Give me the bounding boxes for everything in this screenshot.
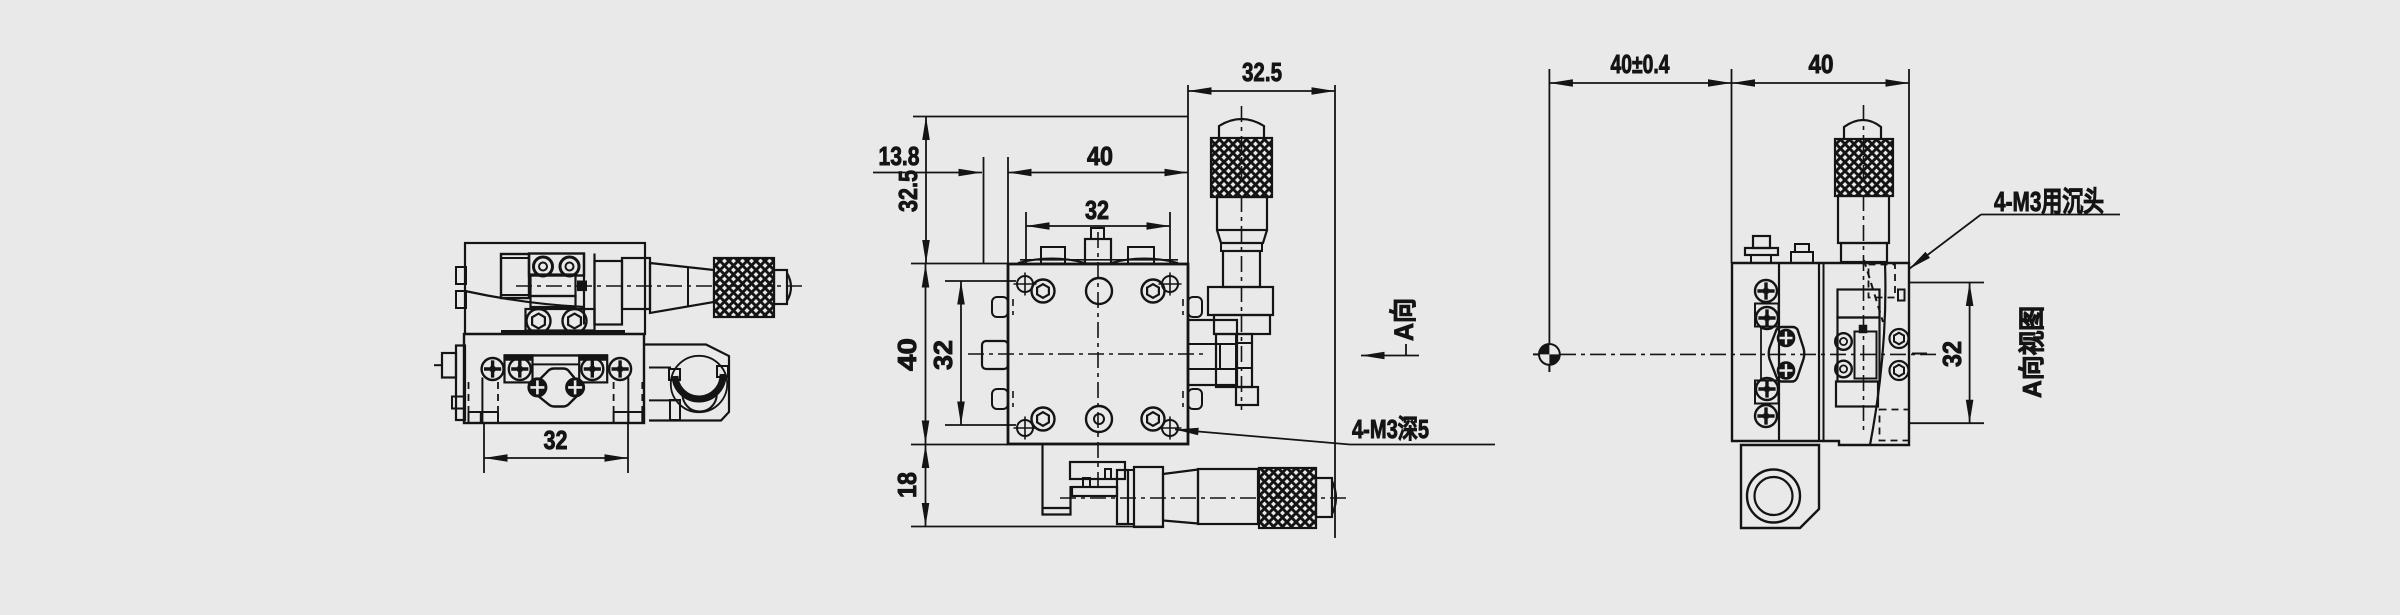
right view: clamp hex screws [1890, 329, 1909, 348]
middle view: top micrometer centerline [1241, 106, 1243, 410]
left view: C-clamp end squares [669, 369, 680, 380]
middle view: dim 13.8 line with arrow [873, 172, 982, 174]
left view: lozenge screw left (dark) [528, 378, 546, 396]
middle view: top micrometer cap [1219, 119, 1264, 138]
left view: center line [516, 285, 806, 287]
middle view: dim 32 horizontal line [1026, 225, 1170, 227]
right view: top bolt small [1795, 244, 1809, 252]
middle view: socket screw top-right [1142, 280, 1165, 303]
left view: base phillips screw 1 [482, 358, 504, 380]
right view: horizontal centerline [1560, 353, 1940, 355]
middle view: leader 4-M3 deep 5 [1175, 430, 1350, 445]
middle view: right micrometer bracket [1188, 320, 1237, 385]
middle view: top wave spring arcs [1018, 259, 1085, 264]
middle view: dim 18 bottom extension line [911, 526, 1162, 528]
left view: center lozenge plate [531, 369, 583, 407]
right view: dim 40±0.4 line [1549, 82, 1731, 84]
middle view: left edge tab lower [992, 389, 1008, 409]
svg-text:4-M3用沉头: 4-M3用沉头 [1994, 186, 2104, 217]
svg-text:18: 18 [892, 472, 922, 498]
right view: top bolt large [1753, 236, 1770, 248]
right view: dim 32 line [1969, 283, 1971, 424]
right view: datum target symbol [1539, 344, 1560, 365]
right view: lozenge screws (dark) [1778, 330, 1795, 347]
right view: lozenge plate [1769, 327, 1805, 382]
left view: mid rect [531, 275, 576, 297]
middle view: main square body [1008, 264, 1188, 444]
middle view: bottom anvil blocks [1117, 470, 1128, 524]
right view: main body outline [1732, 263, 1909, 445]
left view: right bracket outline [644, 345, 729, 421]
middle view: platform top tabs [1041, 247, 1065, 264]
right view: top micrometer cap [1844, 120, 1881, 139]
svg-text:32.5: 32.5 [1242, 57, 1282, 87]
left view: upper block (stage body, side) [465, 243, 645, 334]
middle view: vertical centerline [1097, 232, 1099, 492]
left view: base phillips screw 4 [609, 358, 631, 380]
middle view: M3 countersunk hole top-right [1159, 273, 1182, 296]
left view: hidden holes right (dashed) [613, 382, 615, 412]
left view: C-clamp thick arc [675, 374, 723, 399]
middle view: left edge center anvil [982, 341, 1008, 369]
right view: bottom mount [1741, 445, 1819, 528]
left view: base bracket frame left [505, 355, 533, 382]
right view: screw bracket frames [1755, 304, 1779, 327]
middle view: top micrometer knurled thimble [1211, 138, 1272, 197]
middle view: bottom micrometer centerline [1060, 497, 1350, 499]
right view: top micrometer knurled thimble [1835, 139, 1893, 196]
middle view: dim 13.8 extension lines [983, 157, 985, 264]
left view: micrometer clamp II [622, 258, 650, 309]
left view: left side bolt [442, 353, 456, 378]
left view: base foot left [469, 412, 499, 423]
middle view: dim 40 vertical line [925, 264, 927, 444]
left view: micrometer barrel [650, 263, 714, 313]
left view: C-clamp inner arc [683, 390, 717, 412]
middle view: right edge tab lower [1188, 389, 1202, 409]
middle view: socket screw bottom-left [1032, 408, 1055, 431]
middle view: M3 countersunk hole bottom-left [1014, 417, 1037, 440]
right view: left column phillips screws [1755, 280, 1777, 302]
middle view: center hole top [1086, 278, 1112, 304]
svg-text:32.5: 32.5 [893, 170, 923, 212]
middle view: left edge tab upper [992, 297, 1008, 317]
svg-text:32: 32 [544, 425, 568, 455]
middle view: bottom stage plate [1070, 462, 1125, 479]
left view: micrometer clamp I [583, 254, 585, 325]
middle view: dim 40 vertical extension lines [911, 263, 1008, 265]
middle view: top micrometer barrel [1217, 197, 1267, 230]
svg-text:A向视图: A向视图 [2017, 306, 2047, 398]
left view: base phillips screw 2 [509, 358, 531, 380]
right view: hidden diagonal (dashed) [1864, 260, 1883, 322]
middle view: dim 32.5 top line [1188, 90, 1335, 92]
right view: clamp center box [1838, 318, 1880, 382]
left view: upper-left side tabs [456, 267, 466, 284]
left view: dimension 32 extension lines [483, 423, 485, 473]
middle view: dim 32 horizontal extension lines [1025, 212, 1027, 264]
right view: dim 40 line [1732, 82, 1910, 84]
svg-text:13.8: 13.8 [879, 141, 920, 171]
left view: upper block bottom thick edge [501, 330, 625, 334]
svg-text:A向: A向 [1388, 298, 1419, 341]
left view: micrometer end cap [774, 270, 787, 304]
right view: hidden countersink bottom (dashed) [1880, 410, 1910, 441]
svg-text:40: 40 [892, 338, 922, 371]
middle view: bottom micrometer barrel [1163, 470, 1198, 524]
left view: C-clamp ring outline [671, 356, 727, 412]
middle view: center hole bottom [1086, 406, 1112, 432]
svg-text:32: 32 [1085, 195, 1109, 225]
middle view: dim 32 vertical extension lines [945, 280, 1016, 282]
left view: top plate screw right [560, 257, 579, 276]
middle view: dim 32.5 vertical reference line [913, 116, 1188, 118]
right view: leader 4-M3 countersink [1909, 215, 1981, 270]
middle view: bottom L-bracket [1043, 445, 1071, 515]
left view: micrometer knurled thimble [714, 258, 774, 317]
left view: lower-left small tab [452, 397, 465, 409]
left view: bracket step [649, 368, 680, 421]
left view: left thin plate [456, 346, 465, 421]
svg-text:32: 32 [1937, 341, 1967, 367]
middle view: M3 countersunk hole top-left [1014, 273, 1037, 296]
right view: clamp upper box [1838, 290, 1880, 318]
middle view: top micrometer mount block [1208, 287, 1273, 315]
left view: hex screw left [527, 309, 551, 333]
left view: dimension 32 line [484, 457, 628, 459]
right view: clamp lower box [1836, 382, 1878, 407]
right view: dim 32 extension lines [1908, 282, 1984, 284]
middle view: top micrometer lower barrel [1221, 243, 1262, 251]
left view: base phillips screw 3 [581, 358, 603, 380]
left view: lower block (base, side) [464, 334, 644, 423]
svg-text:40: 40 [1809, 49, 1834, 79]
svg-text:4-M3深5: 4-M3深5 [1352, 414, 1429, 444]
middle view: dim 32.5 vertical line [925, 117, 927, 264]
right view: clamp arm curve [1870, 263, 1885, 445]
left view: inner top plate B [529, 254, 584, 276]
svg-text:32: 32 [928, 340, 958, 370]
left view: base foot right [614, 412, 643, 423]
right view: top micrometer centerline [1863, 105, 1865, 430]
middle view: bottom micrometer knurled thimble [1259, 468, 1316, 528]
middle view: hidden edge dashes [1012, 299, 1014, 315]
left view: top plate screw left [534, 257, 553, 276]
right view: hidden countersink top (dashed) [1869, 265, 1896, 298]
middle view: view A arrow [1361, 355, 1419, 357]
middle view: socket screw bottom-right [1142, 408, 1165, 431]
right view: bottom mount ring [1747, 470, 1800, 523]
middle view: dim 32.5 top extension lines [1187, 85, 1189, 264]
left view: centerline stop square [578, 282, 586, 291]
left view: inner plate A [501, 254, 529, 298]
middle view: dim 40 horizontal line [1008, 172, 1188, 174]
right view: inner vertical edges [1778, 263, 1780, 441]
middle view: M3 countersunk hole bottom-right [1159, 417, 1182, 440]
left view: base top rail [504, 354, 608, 356]
middle view: right edge tab upper [1188, 297, 1202, 317]
svg-text:40±0.4: 40±0.4 [1611, 49, 1670, 79]
left view: hex screw right [563, 309, 587, 333]
middle view: dim 32 vertical line [960, 281, 962, 425]
right view: top micrometer barrel [1838, 196, 1889, 243]
middle view: socket screw top-left [1032, 280, 1055, 303]
left view: base bracket frame right [579, 355, 607, 382]
left view: hidden holes left (dashed) [468, 382, 470, 412]
middle view: top micrometer spindle [1216, 334, 1252, 387]
left view: lozenge screw right (dark) [566, 378, 584, 396]
svg-text:40: 40 [1087, 141, 1113, 171]
left view: hex plate [526, 309, 595, 331]
left view: leaf spring curve [465, 291, 584, 307]
middle view: horizontal centerline [968, 353, 1207, 355]
right view: dim extension lines top [1548, 69, 1550, 344]
right view: clamp socket screws (side) [1835, 333, 1852, 350]
middle view: bottom micrometer end cap [1316, 478, 1332, 517]
middle view: dim 18 line [925, 445, 927, 527]
